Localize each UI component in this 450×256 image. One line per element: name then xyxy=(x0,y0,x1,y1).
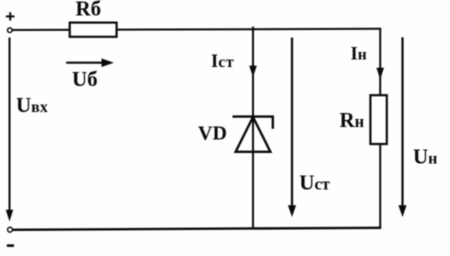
wire: top rail xyxy=(12,29,381,30)
wire: right load branch (vertical) xyxy=(379,29,381,228)
arrow Uб (voltage across Rб) xyxy=(66,62,103,64)
svg-text:Uвх: Uвх xyxy=(16,93,48,117)
arrow Uн (load voltage) xyxy=(401,37,403,206)
svg-text:Iст: Iст xyxy=(211,52,234,72)
arrow Uст (output/stabilized voltage) xyxy=(291,38,293,207)
svg-text:Rб: Rб xyxy=(76,0,102,20)
node: bottom-left output terminal xyxy=(8,227,13,232)
terminal + (plus sign) xyxy=(6,12,15,20)
resistor Rн (load) xyxy=(370,95,386,144)
svg-text:Rн: Rн xyxy=(340,108,365,132)
svg-text:Uст: Uст xyxy=(299,170,330,194)
node: top-left input terminal xyxy=(8,28,13,33)
arrow Iн (load current) xyxy=(376,68,384,80)
svg-text:Iн: Iн xyxy=(351,44,367,64)
wire: left rail (with Uвх arrow) xyxy=(9,38,11,213)
wire: zener branch (vertical) xyxy=(252,27,254,229)
svg-text:VD: VD xyxy=(198,123,227,145)
resistor Rб (series ballast resistor) xyxy=(70,23,117,37)
terminal - (minus sign) xyxy=(7,244,14,247)
arrow Uвх (arrowhead on left rail) xyxy=(6,210,13,222)
zener diode VD: cathode bar with bent end xyxy=(233,117,273,129)
wire: bottom rail xyxy=(12,228,381,230)
arrow Iст (stabilizer current) xyxy=(249,66,257,78)
svg-text:Uн: Uн xyxy=(413,145,437,169)
zener diode VD: triangle (anode) xyxy=(236,117,271,152)
svg-text:Uб: Uб xyxy=(72,67,98,91)
